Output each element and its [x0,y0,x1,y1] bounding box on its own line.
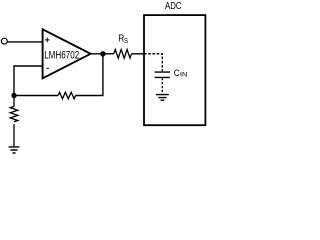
wire RS to ADC [132,53,145,55]
svg-text:C: C [174,68,180,78]
ground CIN [156,95,169,101]
wire feedback right up to output [76,54,103,96]
dashed wire to CIN [144,54,162,72]
input terminal circle [1,38,7,44]
svg-text:LMH6702: LMH6702 [44,50,79,62]
resistor RF feedback [58,92,75,99]
minus marking [46,67,49,69]
op-amp U1 LMH6702 [43,29,91,78]
capacitor CIN [155,72,170,77]
svg-text:ADC: ADC [165,1,182,12]
wire input to op-amp + [7,41,42,43]
resistor RS [114,50,132,59]
wire feedback left [14,95,58,97]
wire inverting input [14,66,43,96]
ground left [9,147,20,153]
svg-text:IN: IN [180,72,187,79]
ADC box [144,15,205,125]
resistor RG to ground [10,96,18,147]
wire op-amp output [91,53,114,55]
node A junction dot [11,93,16,98]
node B output junction dot [100,51,105,56]
plus marking [45,38,50,43]
svg-text:S: S [124,36,128,45]
dashed wire CIN to ground [161,78,163,94]
